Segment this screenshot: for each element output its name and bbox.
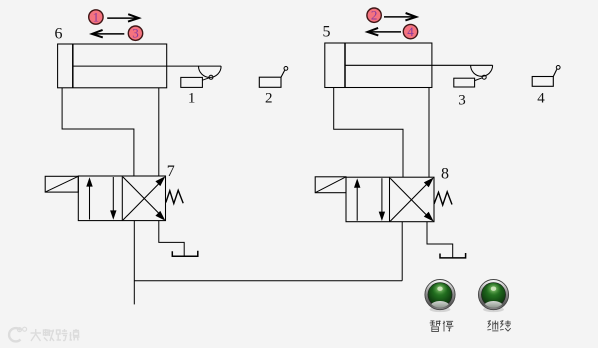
svg-text:3: 3 [458, 93, 466, 109]
svg-text:7: 7 [167, 163, 175, 180]
svg-text:2: 2 [265, 91, 273, 107]
svg-text:6: 6 [55, 26, 63, 43]
svg-text:3: 3 [132, 26, 139, 41]
svg-text:2: 2 [371, 8, 378, 23]
svg-text:1: 1 [188, 91, 196, 107]
svg-text:8: 8 [441, 165, 449, 182]
svg-text:5: 5 [323, 24, 331, 41]
svg-text:4: 4 [537, 91, 545, 107]
svg-text:1: 1 [93, 10, 100, 25]
svg-text:4: 4 [407, 24, 414, 39]
